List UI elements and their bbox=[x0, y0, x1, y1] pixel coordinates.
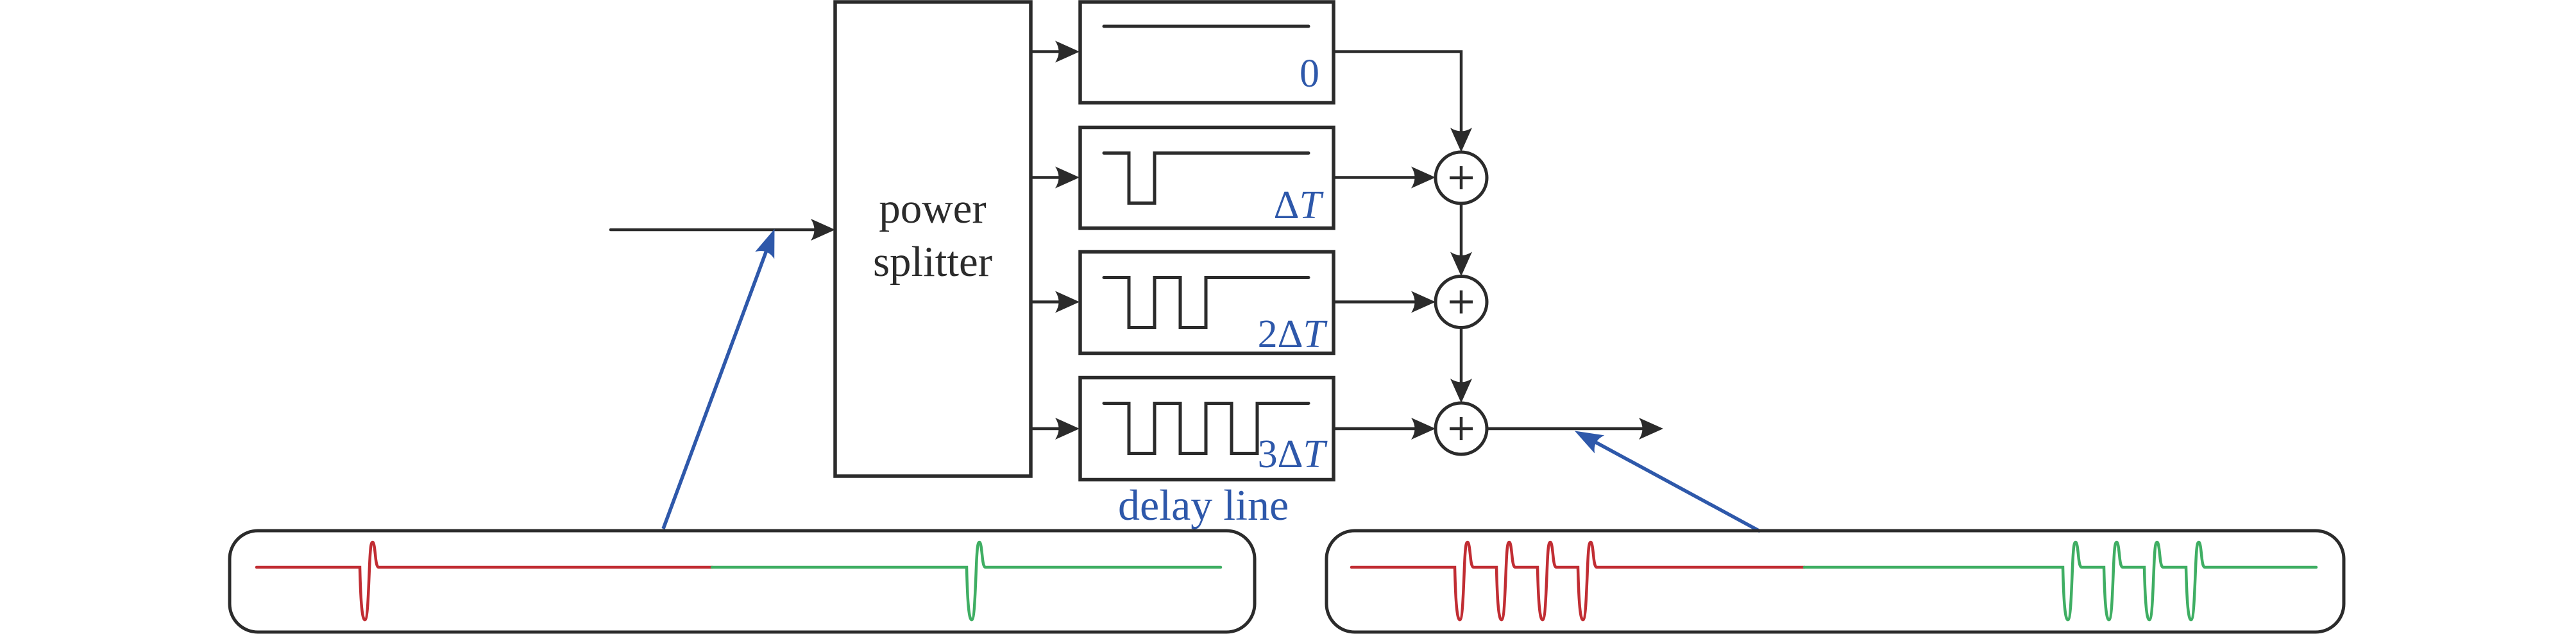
wire output bbox=[1487, 427, 1658, 431]
waveform square pulses D3 bbox=[1104, 278, 1309, 328]
arrow callout input signal bbox=[663, 234, 773, 529]
waveform square pulses D4 bbox=[1104, 404, 1309, 454]
output green waveform bbox=[1804, 542, 2316, 620]
wire S2 to S3 bbox=[1460, 328, 1463, 398]
wire S1 to S2 bbox=[1460, 203, 1463, 271]
wire splitter to delay 3T bbox=[1031, 427, 1074, 431]
power splitter U1 bbox=[835, 2, 1031, 476]
output signal box bbox=[1326, 531, 2344, 632]
delay element D3 box bbox=[1080, 252, 1334, 354]
svg-text:2ΔT: 2ΔT bbox=[1258, 313, 1328, 356]
delay element D2 box bbox=[1080, 128, 1334, 228]
delay element D4 box bbox=[1080, 378, 1334, 480]
svg-text:0: 0 bbox=[1300, 52, 1319, 96]
summer S1 bbox=[1436, 152, 1487, 203]
wire splitter to delay T bbox=[1031, 176, 1074, 179]
wire input bbox=[611, 228, 830, 232]
svg-text:splitter: splitter bbox=[873, 238, 992, 286]
arrow callout output signal bbox=[1579, 433, 1760, 531]
waveform flat line D1 bbox=[1104, 25, 1309, 28]
wire D4 to summer S3 bbox=[1334, 427, 1430, 431]
wire D3 to summer S2 bbox=[1334, 300, 1430, 304]
delay element D1 box bbox=[1080, 2, 1334, 103]
wire splitter to delay 0 bbox=[1031, 50, 1074, 53]
svg-text:ΔT: ΔT bbox=[1274, 184, 1325, 227]
waveform square pulse D2 bbox=[1104, 153, 1309, 203]
wire splitter to delay 2T bbox=[1031, 300, 1074, 304]
wire D1 to summer S1 bbox=[1334, 52, 1461, 148]
summer S3 bbox=[1436, 403, 1487, 454]
svg-text:3ΔT: 3ΔT bbox=[1258, 433, 1328, 476]
input signal box bbox=[230, 531, 1255, 632]
label power splitter bbox=[873, 185, 992, 286]
input green waveform bbox=[712, 542, 1221, 620]
output red waveform bbox=[1352, 542, 1804, 620]
summer S2 bbox=[1436, 277, 1487, 328]
svg-text:power: power bbox=[879, 185, 986, 232]
input red waveform bbox=[257, 542, 712, 620]
svg-text:delay line: delay line bbox=[1118, 481, 1289, 529]
wire D2 to summer S1 bbox=[1334, 176, 1430, 179]
